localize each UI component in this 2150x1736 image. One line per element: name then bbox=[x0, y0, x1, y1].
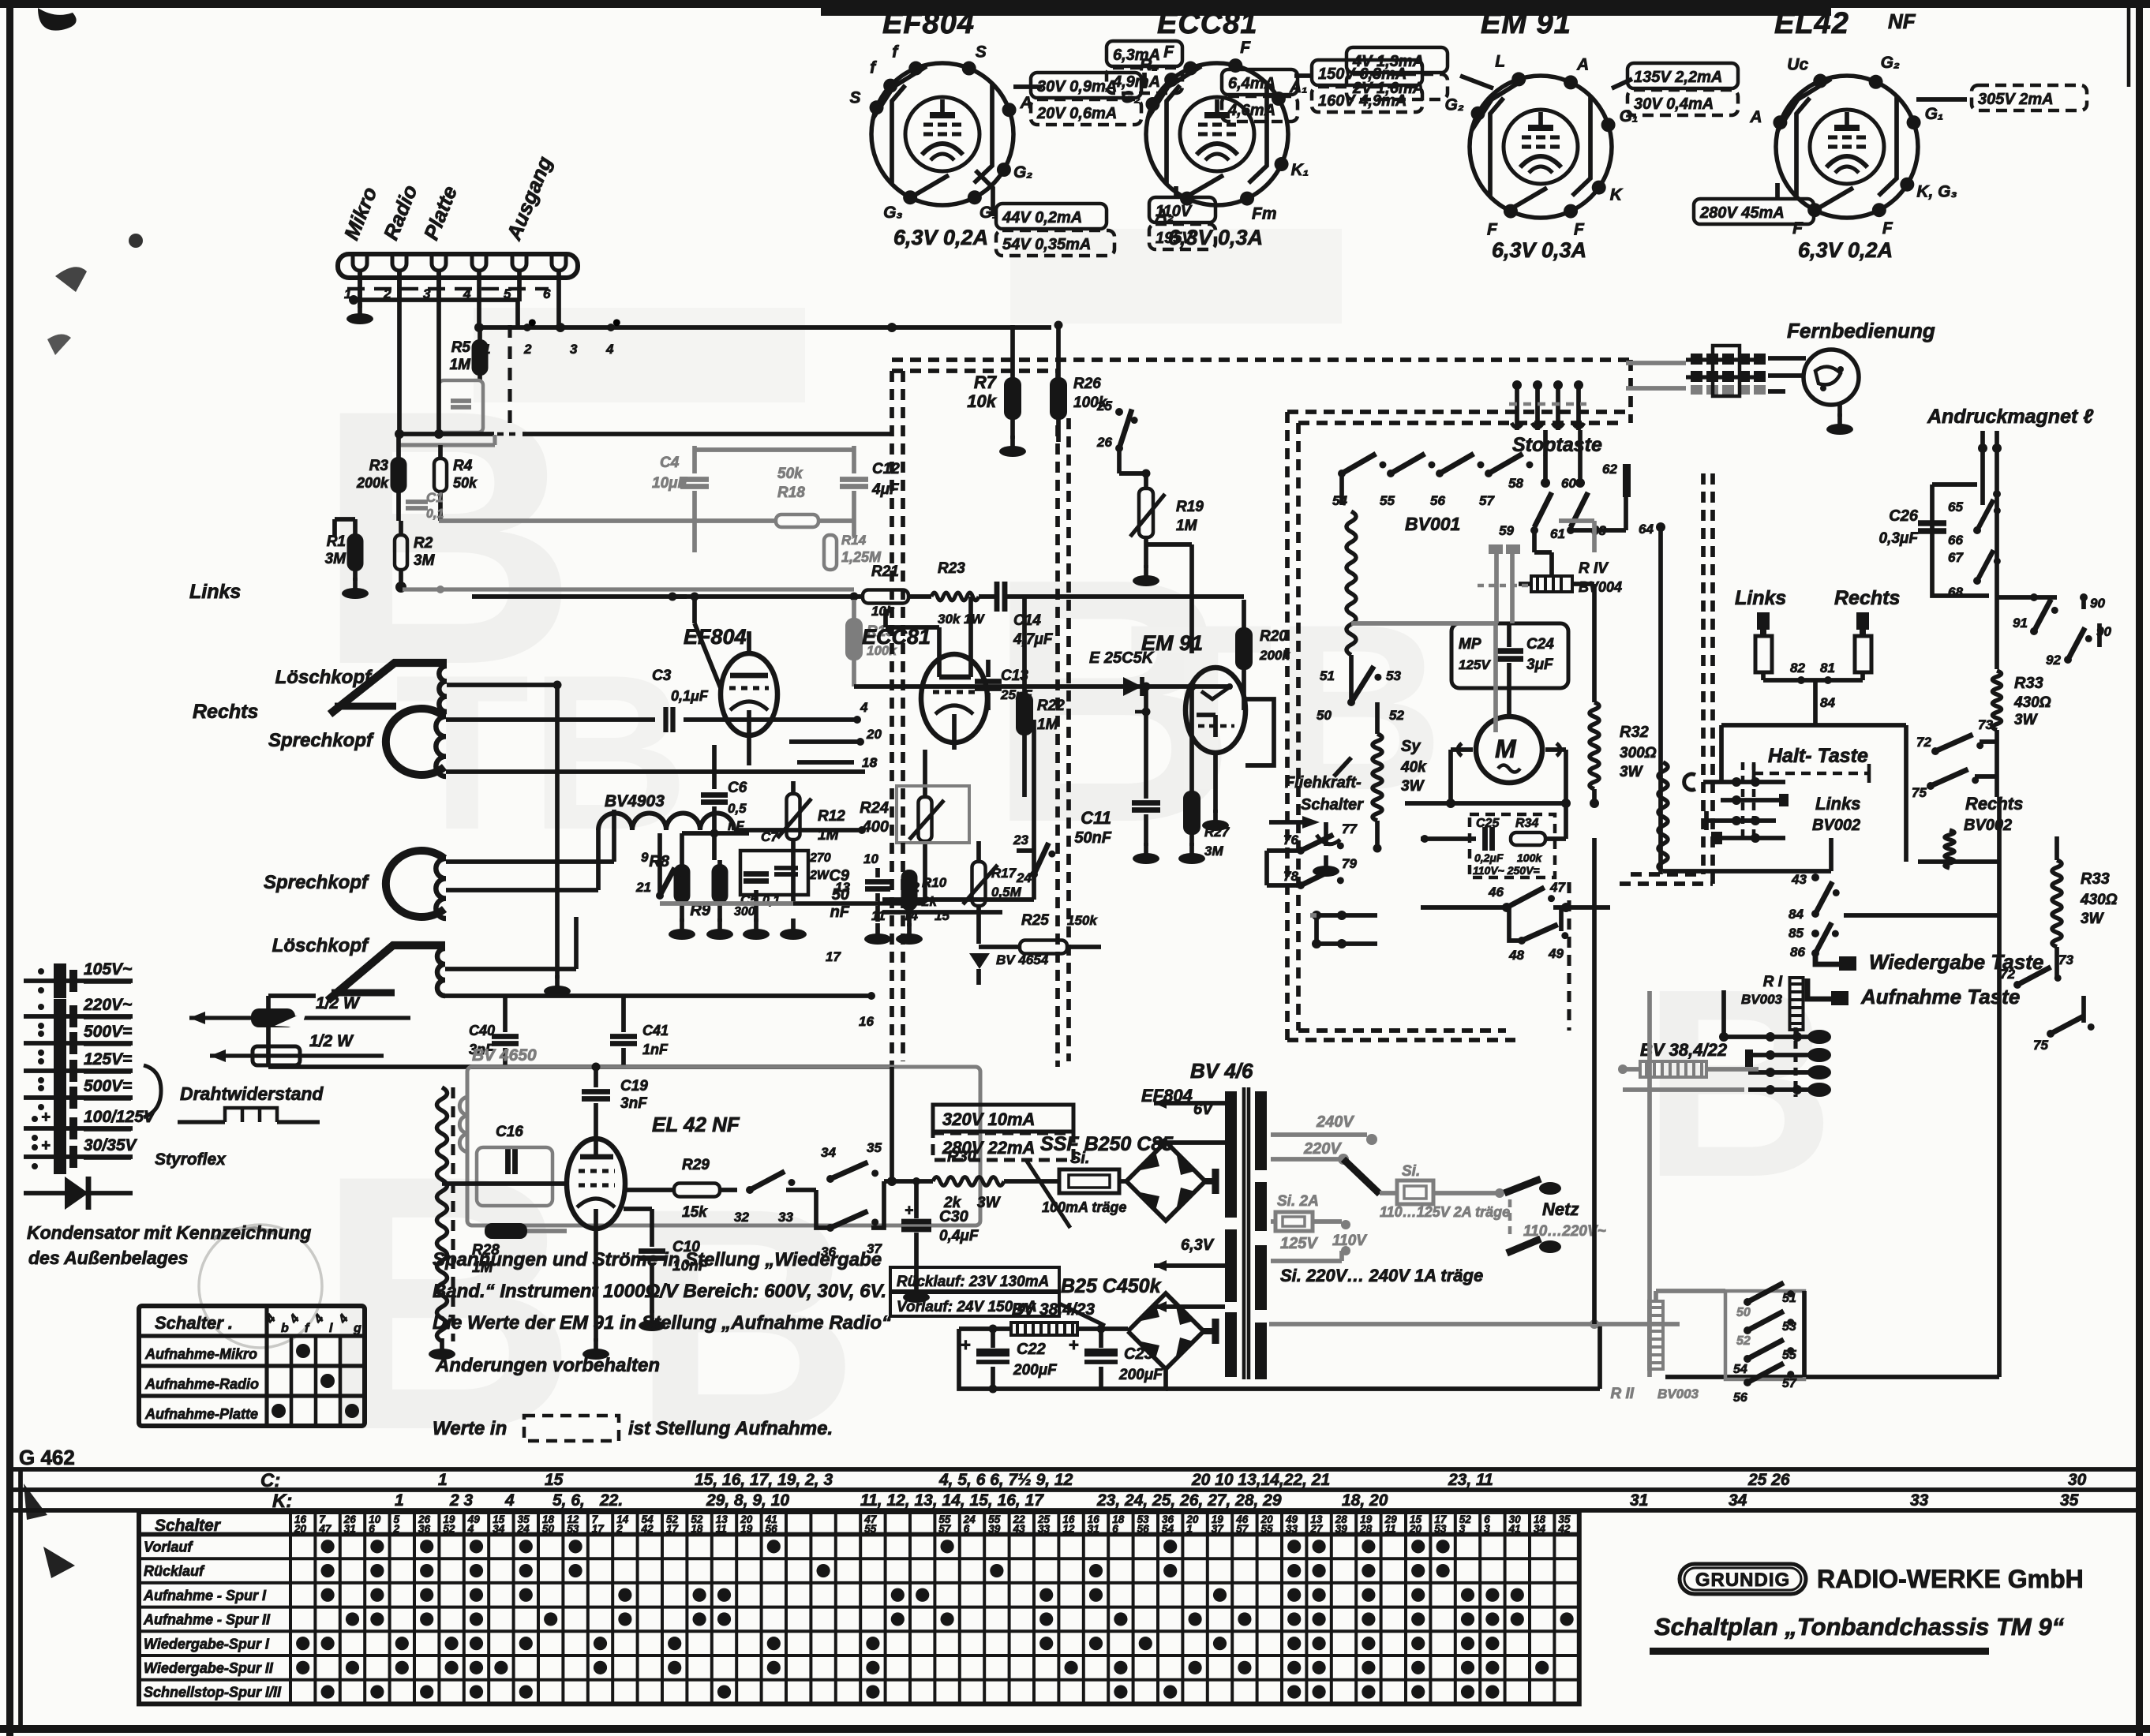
svg-text:R29: R29 bbox=[682, 1157, 710, 1173]
resistor R18 50k (gray) bbox=[776, 514, 818, 527]
svg-text:54V 0,35mA: 54V 0,35mA bbox=[1002, 236, 1091, 253]
svg-text:Fliehkraft-: Fliehkraft- bbox=[1285, 774, 1362, 791]
wire Halt box bbox=[1721, 723, 1906, 728]
grid wire EL42 bbox=[442, 1181, 567, 1186]
svg-text:Si.: Si. bbox=[1402, 1163, 1420, 1180]
svg-text:Kondensator mit Kennzeichnung: Kondensator mit Kennzeichnung bbox=[27, 1222, 311, 1243]
wire to B+ node bbox=[884, 1179, 933, 1184]
svg-text:Halt- Taste: Halt- Taste bbox=[1768, 745, 1868, 767]
coil BV4903 bbox=[598, 814, 734, 831]
capacitor C19 bbox=[582, 1089, 610, 1094]
switch table dots bbox=[296, 1344, 310, 1358]
svg-text:91: 91 bbox=[2013, 615, 2028, 630]
svg-text:2: 2 bbox=[523, 342, 532, 357]
svg-text:EL42: EL42 bbox=[1774, 7, 1849, 40]
svg-text:66: 66 bbox=[1948, 533, 1963, 548]
capacitor C9 bbox=[865, 879, 890, 885]
svg-text:3M: 3M bbox=[414, 552, 436, 569]
svg-text:34: 34 bbox=[821, 1145, 836, 1160]
wire terminal3 down bbox=[436, 272, 441, 434]
annotation box EM91 left values bbox=[1347, 47, 1448, 73]
svg-text:C3: C3 bbox=[652, 668, 672, 684]
svg-text:81: 81 bbox=[1820, 660, 1835, 675]
svg-text:4V 1,3mA: 4V 1,3mA bbox=[1352, 53, 1424, 70]
svg-text:4: 4 bbox=[467, 1523, 474, 1535]
dashed wire below switch bbox=[508, 325, 511, 426]
capacitor C5 bbox=[744, 871, 769, 877]
svg-text:Werte in: Werte in bbox=[433, 1418, 507, 1439]
svg-text:9: 9 bbox=[641, 850, 649, 865]
svg-text:42: 42 bbox=[641, 1523, 654, 1535]
frame wires EM91 bbox=[1245, 699, 1274, 765]
anode wires ECC81 bbox=[886, 625, 939, 630]
resistor R29 bbox=[674, 1184, 720, 1197]
heater arrows EF804 6V bbox=[1154, 1101, 1198, 1106]
capacitor C41 bbox=[610, 1034, 637, 1039]
grounds ECC81 area bbox=[875, 923, 880, 936]
resistor R27 3M bbox=[1185, 792, 1199, 833]
svg-text:3: 3 bbox=[570, 342, 578, 357]
svg-text:305V 2mA: 305V 2mA bbox=[1978, 91, 2054, 108]
svg-text:18, 20: 18, 20 bbox=[1342, 1491, 1388, 1510]
svg-text:4, 5, 6 6, 7½ 9, 12: 4, 5, 6 6, 7½ 9, 12 bbox=[938, 1471, 1073, 1489]
svg-text:56: 56 bbox=[1137, 1523, 1150, 1535]
svg-text:Links: Links bbox=[189, 581, 241, 603]
svg-text:R19: R19 bbox=[1176, 499, 1204, 515]
svg-text:C4: C4 bbox=[660, 455, 680, 471]
output transformer winding bbox=[437, 1087, 448, 1341]
dashed connector mid bbox=[1567, 882, 1571, 1031]
svg-text:53: 53 bbox=[1782, 1320, 1796, 1334]
legend diode symbol bbox=[24, 1191, 133, 1195]
svg-text:10μF: 10μF bbox=[652, 475, 688, 492]
wire EF804 to value boxes bbox=[1013, 84, 1042, 89]
legend wirewound symbol bbox=[178, 1120, 225, 1124]
svg-text:G₃: G₃ bbox=[883, 204, 903, 222]
svg-text:3M: 3M bbox=[1204, 844, 1223, 859]
svg-text:84: 84 bbox=[1789, 907, 1804, 922]
wire nest row3 bbox=[1706, 818, 1776, 823]
svg-text:300Ω: 300Ω bbox=[1620, 745, 1657, 761]
svg-text:R23: R23 bbox=[938, 560, 965, 577]
wire head2 bottom bbox=[446, 769, 865, 774]
switch node 21 bbox=[657, 860, 662, 896]
remote connector plug rows bbox=[1691, 354, 1702, 365]
motor brushes bbox=[1458, 743, 1462, 756]
svg-text:3W: 3W bbox=[1620, 764, 1644, 780]
svg-text:R12: R12 bbox=[818, 808, 845, 825]
svg-text:ist Stellung Aufnahme.: ist Stellung Aufnahme. bbox=[628, 1418, 833, 1439]
relay coil BV001 bbox=[1347, 511, 1356, 655]
ground row EF804 bbox=[680, 919, 684, 931]
node 23/24 switch bbox=[1017, 848, 1034, 853]
svg-text:53: 53 bbox=[567, 1523, 579, 1535]
coil Rechts BV002 bbox=[1945, 830, 1954, 868]
svg-text:30k 1W: 30k 1W bbox=[938, 612, 986, 627]
svg-text:500V=: 500V= bbox=[84, 1023, 132, 1041]
svg-text:20V 0,6mA: 20V 0,6mA bbox=[1036, 105, 1117, 122]
dashed box left edge pair bbox=[1285, 412, 1290, 1040]
svg-text:R I: R I bbox=[1763, 974, 1783, 990]
capacitor C3 bbox=[663, 707, 668, 732]
svg-text:BV002: BV002 bbox=[1812, 817, 1860, 834]
svg-text:Links: Links bbox=[1735, 587, 1786, 609]
svg-text:R33: R33 bbox=[2014, 675, 2043, 692]
capacitor C25 R34 dashed box bbox=[1470, 814, 1555, 877]
remote connector circle bbox=[1804, 350, 1859, 405]
svg-text:50: 50 bbox=[832, 886, 849, 904]
resistor Sy winding bbox=[1373, 734, 1382, 821]
svg-text:90: 90 bbox=[2090, 596, 2105, 611]
svg-text:6,3mA: 6,3mA bbox=[1113, 47, 1160, 64]
svg-text:3: 3 bbox=[1484, 1523, 1490, 1535]
svg-text:GRUNDIG: GRUNDIG bbox=[1695, 1570, 1790, 1591]
capacitor C22 electrolytic bbox=[976, 1349, 1009, 1356]
tube socket EM 91 bbox=[1445, 7, 1639, 262]
svg-text:3W: 3W bbox=[1401, 778, 1425, 795]
capacitor C10 bbox=[639, 1248, 665, 1254]
wire main top bus bbox=[478, 325, 1051, 330]
resistor R3 bbox=[392, 458, 406, 492]
svg-text:3M: 3M bbox=[325, 551, 347, 567]
capacitor C30 bbox=[901, 1219, 931, 1225]
wire nest row2 bbox=[1721, 798, 1785, 803]
svg-text:R25: R25 bbox=[1021, 912, 1049, 929]
switch 36 37 bbox=[826, 1224, 834, 1232]
svg-text:C22: C22 bbox=[1017, 1341, 1046, 1358]
resistor R11 2k bbox=[903, 871, 916, 909]
matrix dots row 1 bbox=[321, 1540, 335, 1553]
mains 220V wire bbox=[1271, 1157, 1339, 1162]
svg-text:4: 4 bbox=[605, 342, 614, 357]
capacitor C6 bbox=[701, 792, 728, 798]
svg-text:BV 4/6: BV 4/6 bbox=[1190, 1059, 1253, 1083]
svg-text:3W: 3W bbox=[977, 1195, 1002, 1211]
title underline bbox=[1650, 1648, 1989, 1655]
ground transformer bbox=[440, 1338, 444, 1351]
wire node 13-12 bus bbox=[882, 910, 1002, 915]
switch 72 73 bbox=[2013, 981, 2021, 989]
svg-text:K, G₃: K, G₃ bbox=[1916, 183, 1957, 201]
svg-text:73: 73 bbox=[1978, 717, 1993, 732]
svg-text:86: 86 bbox=[1790, 945, 1805, 960]
svg-text:BV4903: BV4903 bbox=[605, 792, 665, 810]
resistor R15 100k (gray) bbox=[847, 619, 861, 659]
svg-text:K:: K: bbox=[272, 1491, 292, 1512]
svg-text:16: 16 bbox=[859, 1014, 874, 1029]
svg-text:21: 21 bbox=[635, 880, 651, 895]
svg-text:Band.“ Instrument 1000Ω/V Be: Band.“ Instrument 1000Ω/V Bereich: 600V,… bbox=[433, 1281, 886, 1302]
capacitor C14 bbox=[994, 582, 1000, 612]
switch 32 33 bbox=[746, 1186, 754, 1194]
svg-text:BV 38,4/22: BV 38,4/22 bbox=[1640, 1040, 1728, 1060]
svg-text:C16: C16 bbox=[496, 1124, 523, 1140]
svg-text:47: 47 bbox=[1549, 880, 1566, 895]
ground R7 bbox=[1010, 436, 1015, 448]
svg-text:R32: R32 bbox=[1620, 724, 1649, 741]
svg-text:200μF: 200μF bbox=[1118, 1367, 1163, 1383]
svg-text:Fernbedienung: Fernbedienung bbox=[1787, 319, 1935, 342]
svg-text:320V 10mA: 320V 10mA bbox=[942, 1109, 1035, 1129]
dashed vertical pair right of amp bbox=[1055, 371, 1060, 1067]
dashed pair in nest bbox=[1741, 762, 1745, 838]
svg-text:52: 52 bbox=[443, 1523, 455, 1535]
svg-text:Sprechkopf: Sprechkopf bbox=[264, 872, 369, 893]
heater arrows 6,3V bbox=[1154, 1263, 1198, 1268]
svg-text:34: 34 bbox=[493, 1523, 505, 1535]
svg-text:Spannungen und Ströme in Stell: Spannungen und Ströme in Stellung „Wiede… bbox=[433, 1249, 882, 1270]
switch 75 bbox=[1927, 782, 1935, 790]
svg-text:31: 31 bbox=[1088, 1523, 1099, 1535]
svg-text:1,25M: 1,25M bbox=[841, 549, 882, 565]
svg-text:6,3V 0,2A: 6,3V 0,2A bbox=[893, 226, 988, 249]
svg-text:50k: 50k bbox=[453, 475, 478, 491]
svg-text:68: 68 bbox=[1948, 585, 1963, 600]
svg-text:51: 51 bbox=[1782, 1292, 1796, 1305]
resistor R23 (zigzag) bbox=[931, 593, 979, 600]
svg-text:110…125V 2A träge: 110…125V 2A träge bbox=[1380, 1204, 1510, 1220]
matrix vertical lines bbox=[289, 1512, 292, 1704]
solenoid Links plunger bbox=[1757, 612, 1770, 630]
svg-text:30: 30 bbox=[2068, 1471, 2087, 1489]
svg-text:47: 47 bbox=[318, 1523, 332, 1535]
grid leads EF804 bbox=[692, 597, 697, 623]
svg-text:K: K bbox=[1610, 186, 1624, 204]
bottom bus amp bbox=[660, 901, 878, 906]
svg-text:65: 65 bbox=[1948, 499, 1963, 514]
erase head Loeschkopf bottom bbox=[328, 945, 445, 1001]
svg-text:Wiedergabe-Spur II: Wiedergabe-Spur II bbox=[144, 1660, 274, 1676]
switch chain frame bbox=[1932, 537, 1989, 596]
wire nest row4 bbox=[1711, 832, 1722, 844]
gray mains bottom wire bbox=[1269, 1322, 1680, 1326]
svg-text:31: 31 bbox=[344, 1523, 356, 1535]
svg-text:3W: 3W bbox=[2014, 712, 2039, 728]
svg-text:75: 75 bbox=[2033, 1038, 2048, 1053]
svg-text:Si. 2A: Si. 2A bbox=[1277, 1193, 1319, 1210]
svg-text:+: + bbox=[905, 1203, 913, 1219]
legend electrolytic 220V bbox=[24, 1014, 133, 1019]
svg-text:L: L bbox=[1495, 52, 1505, 70]
resistor R32 300 ohm bbox=[1590, 702, 1599, 789]
svg-text:C1: C1 bbox=[426, 490, 444, 505]
aufnahme taste bbox=[1807, 978, 1831, 999]
wire lower long bus bbox=[268, 1064, 892, 1069]
svg-text:52: 52 bbox=[1389, 708, 1404, 723]
svg-text:Aufnahme Taste: Aufnahme Taste bbox=[1860, 985, 2020, 1008]
stain marks bbox=[38, 8, 77, 31]
wire head4 bbox=[445, 967, 576, 971]
resistor R30 bbox=[933, 1177, 1004, 1186]
capacitor C1 (gray) bbox=[406, 499, 428, 504]
ground R19 bbox=[1144, 565, 1148, 578]
svg-text:30V 0,4mA: 30V 0,4mA bbox=[1634, 95, 1714, 113]
dashed connector right top bbox=[1628, 360, 1633, 423]
svg-text:20: 20 bbox=[294, 1523, 307, 1535]
svg-text:G₂: G₂ bbox=[1121, 88, 1140, 107]
resistor R7 bbox=[1006, 379, 1020, 418]
tube socket ECC81 bbox=[1121, 7, 1309, 249]
svg-text:nF: nF bbox=[830, 904, 850, 921]
mains 240V wire bbox=[1271, 1132, 1367, 1137]
relay R I BV003 bbox=[1790, 978, 1804, 1030]
junction grid BV38 area bbox=[1748, 1034, 1812, 1039]
svg-text:30/35V: 30/35V bbox=[84, 1136, 138, 1154]
svg-text:19: 19 bbox=[740, 1523, 753, 1535]
halt taste dashed bracket bbox=[1754, 772, 1869, 776]
legend bracket Styroflex bbox=[144, 1065, 161, 1117]
stop contact 62 bar bbox=[1623, 464, 1631, 497]
svg-text:125V: 125V bbox=[1459, 657, 1491, 672]
svg-text:M: M bbox=[1495, 735, 1517, 763]
svg-text:R24: R24 bbox=[860, 799, 889, 817]
resistor R13 bbox=[676, 866, 689, 902]
capacitor box MP C24 bbox=[1451, 623, 1568, 688]
svg-text:F: F bbox=[1487, 221, 1498, 239]
svg-text:A: A bbox=[1749, 108, 1762, 126]
svg-text:105V~: 105V~ bbox=[84, 960, 132, 978]
svg-text:53: 53 bbox=[1434, 1523, 1447, 1535]
table C row line bbox=[6, 1467, 2143, 1472]
annotation box EM91 far-left values bbox=[1222, 69, 1298, 95]
svg-text:Drahtwiderstand: Drahtwiderstand bbox=[180, 1083, 324, 1104]
svg-text:280V 45mA: 280V 45mA bbox=[1699, 204, 1785, 222]
svg-text:220V~: 220V~ bbox=[83, 996, 132, 1014]
svg-text:33: 33 bbox=[778, 1210, 793, 1225]
svg-text:3W: 3W bbox=[2081, 911, 2105, 927]
svg-text:55: 55 bbox=[1782, 1349, 1797, 1362]
svg-text:Löschkopf: Löschkopf bbox=[272, 935, 369, 956]
svg-text:R IV: R IV bbox=[1579, 560, 1609, 577]
svg-text:3nF: 3nF bbox=[620, 1095, 648, 1112]
resistor R24 potentiometer bbox=[919, 797, 932, 841]
ground terminal 1 bbox=[358, 303, 362, 316]
svg-text:25: 25 bbox=[1096, 398, 1112, 413]
black vertical from R32 to mains bbox=[1592, 838, 1597, 1324]
svg-text:32: 32 bbox=[734, 1210, 749, 1225]
resistor R22 bbox=[1017, 694, 1032, 734]
svg-text:Schalter .: Schalter . bbox=[155, 1313, 233, 1333]
svg-text:NF: NF bbox=[1888, 9, 1916, 33]
annotation box EL42 anode values bbox=[1694, 199, 1814, 224]
stop switch contacts 58-64 bbox=[1543, 430, 1548, 480]
resistor R20 bbox=[1237, 629, 1251, 668]
resistor R9 bbox=[714, 866, 727, 902]
coil Links BV002 bbox=[1658, 762, 1668, 871]
svg-text:64: 64 bbox=[1639, 522, 1654, 537]
svg-text:6,4mA: 6,4mA bbox=[1228, 75, 1275, 92]
svg-text:C12: C12 bbox=[872, 461, 900, 477]
resistor R33 430 ohm bbox=[2052, 860, 2062, 947]
wiedergabe taste bbox=[1815, 951, 1839, 964]
svg-text:35: 35 bbox=[2060, 1491, 2079, 1510]
wire nest bottom bbox=[1663, 869, 1831, 874]
svg-text:C23: C23 bbox=[1124, 1345, 1153, 1363]
svg-text:Aufnahme - Spur II: Aufnahme - Spur II bbox=[143, 1612, 271, 1628]
svg-text:59: 59 bbox=[1499, 523, 1514, 538]
svg-text:15k: 15k bbox=[682, 1204, 708, 1221]
svg-text:18: 18 bbox=[862, 755, 877, 770]
svg-text:G₂: G₂ bbox=[1445, 96, 1464, 114]
cathode wire EF804 bbox=[747, 745, 751, 765]
resistor R5 bbox=[474, 341, 487, 374]
wire terminal 4 to bus bbox=[477, 301, 481, 327]
wire nest row1 bbox=[1684, 774, 1695, 790]
legend electrolytic 500V styroflex bbox=[24, 1095, 133, 1100]
svg-text:Rechts: Rechts bbox=[1834, 587, 1900, 609]
svg-text:BV004: BV004 bbox=[1579, 579, 1622, 595]
annotation box 320V bbox=[933, 1105, 1073, 1132]
svg-text:100mA träge: 100mA träge bbox=[1042, 1199, 1126, 1215]
svg-text:36: 36 bbox=[418, 1523, 431, 1535]
svg-text:92: 92 bbox=[2046, 653, 2061, 668]
svg-text:Rücklauf: Rücklauf bbox=[144, 1563, 205, 1579]
svg-text:55: 55 bbox=[1380, 493, 1395, 508]
wire terminal 6 to bus bbox=[556, 301, 561, 327]
wire head3 top bbox=[446, 859, 614, 864]
svg-text:Aufnahme-Mikro: Aufnahme-Mikro bbox=[144, 1346, 257, 1362]
svg-text:1nF: 1nF bbox=[642, 1042, 669, 1057]
mains 110V wire bbox=[1271, 1259, 1342, 1263]
svg-text:57: 57 bbox=[1236, 1523, 1249, 1535]
gray feedback rectangle EL42 bbox=[467, 1067, 980, 1225]
svg-text:3: 3 bbox=[1459, 1523, 1466, 1535]
svg-text:BV002: BV002 bbox=[1964, 817, 2012, 834]
svg-text:1M: 1M bbox=[450, 357, 472, 373]
switch contacts 91 90 bbox=[2030, 593, 2038, 601]
svg-text:4μF: 4μF bbox=[871, 481, 900, 498]
svg-text:20: 20 bbox=[866, 727, 882, 742]
svg-text:+: + bbox=[41, 1109, 51, 1126]
svg-text:57: 57 bbox=[1479, 493, 1495, 508]
wire B+ vertical join bbox=[890, 1067, 894, 1181]
gray wires inside control box bbox=[1493, 623, 1498, 732]
svg-text:EF804: EF804 bbox=[882, 7, 975, 40]
svg-text:110V~ 250V=: 110V~ 250V= bbox=[1473, 864, 1540, 877]
terminal strip Mikro/Radio/Platte/Ausgang bbox=[338, 254, 578, 278]
legend electrolytic 125V bbox=[24, 1068, 133, 1073]
fuse Si mains bbox=[1380, 1191, 1397, 1195]
svg-text:R3: R3 bbox=[369, 458, 389, 474]
svg-text:C26: C26 bbox=[1889, 507, 1919, 525]
left contact rows in box bbox=[1312, 911, 1321, 920]
gray box around ECC81 cathode bbox=[897, 786, 969, 843]
svg-text:12: 12 bbox=[1062, 1523, 1075, 1535]
svg-text:EL 42 NF: EL 42 NF bbox=[652, 1113, 740, 1136]
svg-text:EF804: EF804 bbox=[684, 625, 747, 649]
svg-text:76: 76 bbox=[1283, 832, 1298, 847]
ground EL42 bbox=[594, 1338, 598, 1351]
dashed box right edge pair bbox=[1701, 473, 1706, 874]
svg-text:2: 2 bbox=[393, 1523, 400, 1535]
capacitor C40 bbox=[492, 1034, 519, 1039]
annotation Ruecklauf/Vorlauf bbox=[890, 1267, 1059, 1291]
ground head common bbox=[555, 975, 560, 988]
switch contacts 46-49 bbox=[1421, 905, 1503, 910]
dashed box bottom right bbox=[1631, 872, 1703, 877]
svg-text:R17: R17 bbox=[991, 866, 1017, 881]
wire top EM91 junction bbox=[1144, 687, 1148, 712]
record head Sprechkopf bottom bbox=[386, 851, 444, 917]
wire EM91 bus bbox=[854, 684, 1231, 689]
wire head1 to vertical bbox=[447, 683, 557, 687]
svg-text:125V: 125V bbox=[1280, 1235, 1318, 1252]
svg-text:53: 53 bbox=[1386, 668, 1401, 683]
svg-text:2W: 2W bbox=[809, 869, 830, 882]
stop button contacts bbox=[1515, 382, 1519, 430]
svg-text:75: 75 bbox=[1912, 785, 1927, 800]
svg-text:2k: 2k bbox=[943, 1195, 962, 1211]
